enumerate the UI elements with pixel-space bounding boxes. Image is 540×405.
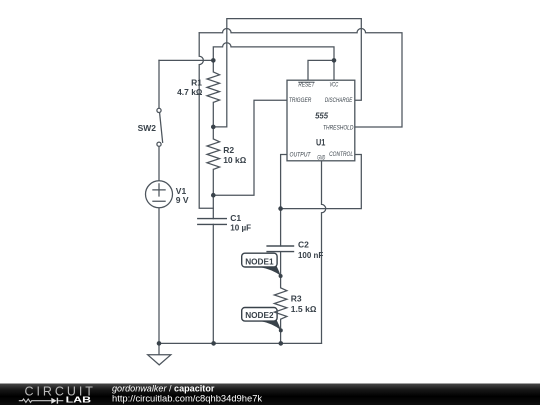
svg-text:DISCHARGE: DISCHARGE <box>325 97 353 104</box>
svg-text:100 nF: 100 nF <box>298 250 323 260</box>
svg-text:NODE2: NODE2 <box>245 310 274 320</box>
svg-text:SW2: SW2 <box>138 123 157 133</box>
svg-text:4.7 kΩ: 4.7 kΩ <box>177 87 203 97</box>
svg-text:C1: C1 <box>230 213 241 223</box>
svg-text:TRIGGER: TRIGGER <box>289 97 312 104</box>
svg-text:10 kΩ: 10 kΩ <box>223 155 247 165</box>
svg-text:VCC: VCC <box>329 81 338 88</box>
svg-text:CONTROL: CONTROL <box>329 151 353 158</box>
svg-text:1.5 kΩ: 1.5 kΩ <box>291 304 317 314</box>
svg-text:LAB: LAB <box>66 395 92 405</box>
svg-text:GND: GND <box>317 155 325 162</box>
svg-text:C2: C2 <box>298 239 309 249</box>
svg-text:R3: R3 <box>291 293 302 303</box>
svg-text:R2: R2 <box>223 145 234 155</box>
svg-text:9 V: 9 V <box>176 195 189 205</box>
svg-text:R1: R1 <box>191 77 202 87</box>
svg-text:OUTPUT: OUTPUT <box>290 151 312 158</box>
svg-text:NODE1: NODE1 <box>245 257 274 267</box>
svg-text:10 µF: 10 µF <box>230 223 251 233</box>
svg-text:555: 555 <box>315 111 328 121</box>
svg-text:http://circuitlab.com/c8qhb34d: http://circuitlab.com/c8qhb34d9he7k <box>112 393 262 404</box>
svg-text:THRESHOLD: THRESHOLD <box>323 125 354 132</box>
svg-text:U1: U1 <box>316 138 325 148</box>
